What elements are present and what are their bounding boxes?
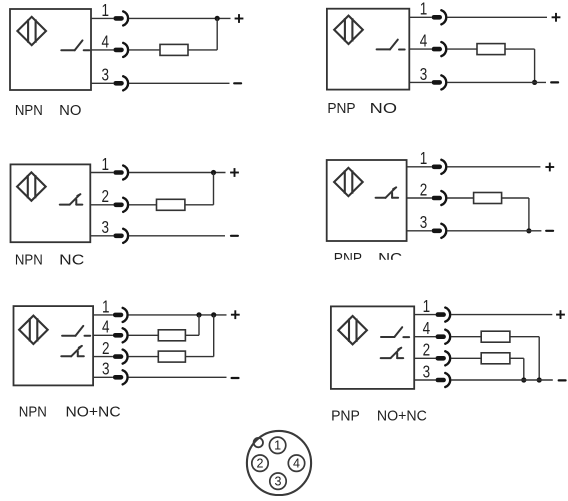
sensor body box (PNP NO) (327, 9, 409, 90)
wire riserB to - node PNP-NO+NC (523, 358, 525, 380)
NC contact switch (NPN NC) (60, 194, 83, 204)
quick-connect plug contact pin 3 (113, 370, 128, 384)
sensor body box (PNP NC) (327, 160, 407, 241)
wire pin2 stub PNP-NC (407, 197, 432, 199)
wire pin3 stub NPN-NO+NC (93, 376, 113, 378)
wire pin1 to + rail NPN-NC (129, 172, 226, 174)
wire pin3 to - terminal PNP-NO+NC (451, 379, 553, 381)
wire pin2 to load NPN-NC (129, 204, 157, 206)
wire riserA to + node NPN-NO+NC (198, 315, 200, 335)
proximity sensor diamond symbol (NPN NC) (17, 172, 46, 200)
svg-text:2: 2 (423, 340, 431, 360)
wire pin3 to - terminal PNP-NC (447, 230, 541, 232)
NC contact switch (PNP NC) (376, 187, 399, 197)
load resistor (NPN NO load) (160, 44, 188, 55)
svg-text:PNPNO+NC: PNPNO+NC (331, 409, 427, 425)
junction node PNP-NO+NC -node B (521, 377, 526, 382)
+ supply terminal (PNP NC) (545, 163, 554, 172)
quick-connect plug contact pin 1 (432, 160, 447, 174)
quick-connect plug contact pin 4 (432, 42, 447, 56)
wire riser to - node PNP-NO (534, 49, 536, 82)
proximity sensor diamond symbol (NPN NO) (17, 17, 46, 45)
svg-text:NPNNO+NC: NPNNO+NC (19, 404, 121, 420)
wire pin4 stub NPN-NO+NC (93, 334, 113, 336)
wire load to riser PNP-NC (502, 197, 529, 199)
quick-connect plug contact pin 3 (113, 76, 128, 90)
wire pin1 stub PNP-NC (407, 166, 432, 168)
svg-text:2: 2 (257, 457, 264, 471)
quick-connect plug contact pin 2 (432, 191, 447, 205)
sensor body box (NPN NO+NC) (14, 306, 94, 385)
wire load to riser NPN-NO (188, 49, 217, 51)
quick-connect plug contact pin 2 (113, 198, 128, 212)
+ supply terminal (NPN NO) (235, 14, 244, 23)
wire pin1 stub PNP-NO (409, 16, 431, 18)
quick-connect plug contact pin 3 (432, 75, 447, 89)
wire pin2 stub NPN-NC (90, 204, 113, 206)
quick-connect plug contact pin 4 (436, 330, 451, 344)
wire pin4 stub PNP-NO (409, 48, 431, 50)
load resistor (PNP NC load) (474, 193, 502, 204)
wire pin1 stub NPN-NO (91, 17, 113, 19)
wire pin3 stub PNP-NO+NC (414, 379, 435, 381)
quick-connect plug contact pin 2 (113, 350, 128, 364)
wire pin4 to load NPN-NO (129, 49, 160, 51)
svg-text:4: 4 (423, 318, 431, 338)
wire pin3 stub NPN-NO (91, 82, 113, 84)
- supply terminal (NPN NC) (231, 235, 238, 237)
svg-text:3: 3 (423, 361, 431, 381)
wire pin1 to + terminal PNP-NO (447, 16, 547, 18)
wire pin3 stub PNP-NC (407, 230, 432, 232)
- supply terminal (PNP NO+NC) (559, 379, 566, 381)
quick-connect plug contact pin 1 (113, 11, 128, 25)
NO contact switch (NPN NO) (61, 40, 89, 50)
connector outer shell circle (247, 431, 311, 495)
NO contact switch (NPN NO+NC) (62, 326, 90, 336)
svg-text:3: 3 (102, 65, 110, 85)
svg-text:4: 4 (293, 457, 300, 471)
connector keyway notch (254, 438, 263, 447)
proximity sensor diamond symbol (PNP NO+NC) (338, 316, 367, 344)
quick-connect plug contact pin 3 (436, 373, 451, 387)
svg-text:1: 1 (102, 154, 110, 174)
load resistor (PNP NO+NC load B) (481, 353, 510, 364)
svg-text:3: 3 (420, 212, 428, 232)
wire pin2 to load NPN-NO+NC (128, 356, 158, 358)
+ supply terminal (PNP NO) (552, 13, 561, 22)
connector pin 2 (252, 455, 268, 471)
connector pin 3 (270, 473, 286, 489)
svg-text:1: 1 (102, 296, 110, 316)
quick-connect plug contact pin 1 (113, 308, 128, 322)
wire pin3 stub PNP-NO (409, 81, 431, 83)
wire loadB to riser NPN-NO+NC (185, 356, 213, 358)
load resistor (NPN NO+NC load B) (158, 351, 185, 362)
NO contact switch (PNP NO+NC) (381, 327, 409, 337)
svg-text:2: 2 (102, 338, 110, 358)
wire pin1 to + terminal PNP-NC (447, 166, 540, 168)
wire riser to - node PNP-NC (528, 198, 530, 231)
wire pin4 stub PNP-NO+NC (414, 336, 435, 338)
NC contact switch (NPN NO+NC) (61, 346, 84, 356)
- supply terminal (PNP NC) (546, 230, 553, 232)
svg-text:3: 3 (102, 217, 110, 237)
wire pin2 stub PNP-NO+NC (414, 357, 435, 359)
proximity sensor diamond symbol (NPN NO+NC) (19, 316, 48, 344)
wire pin1 stub NPN-NC (90, 172, 113, 174)
quick-connect plug contact pin 3 (113, 229, 128, 243)
- supply terminal (NPN NO) (234, 82, 241, 84)
svg-text:3: 3 (275, 475, 282, 489)
svg-text:4: 4 (420, 31, 428, 51)
svg-text:1: 1 (420, 0, 428, 19)
NC contact switch (PNP NO+NC) (381, 348, 404, 358)
wire pin1 to + rail NPN-NO+NC (128, 314, 226, 316)
sensor body box (PNP NO+NC) (331, 306, 414, 389)
quick-connect plug contact pin 2 (436, 351, 451, 365)
sensor body box (NPN NC) (11, 164, 91, 242)
wire pin4 to load PNP-NO (447, 48, 477, 50)
wire pin4 to load PNP-NO+NC (451, 336, 481, 338)
quick-connect plug contact pin 3 (432, 224, 447, 238)
wire riser to + node NPN-NO (216, 18, 218, 50)
NO contact switch (PNP NO) (377, 40, 405, 50)
wire pin4 stub NPN-NO (91, 49, 113, 51)
white overlay clipping bottom of PNP NC caption (328, 260, 410, 268)
junction node NPN-NO+NC +node A (196, 312, 201, 317)
svg-text:4: 4 (102, 31, 110, 51)
proximity sensor diamond symbol (PNP NC) (334, 168, 363, 196)
wire pin1 stub PNP-NO+NC (414, 314, 435, 316)
svg-text:1: 1 (420, 148, 428, 168)
quick-connect plug contact pin 1 (432, 10, 447, 24)
load resistor (PNP NO load) (477, 44, 505, 55)
wire pin1 stub NPN-NO+NC (93, 314, 113, 316)
wire loadB to riser PNP-NO+NC (510, 357, 524, 359)
wire riser to + node NPN-NC (213, 173, 215, 205)
connector pin 1 (269, 437, 285, 453)
svg-text:1: 1 (102, 0, 110, 20)
svg-text:2: 2 (102, 186, 110, 206)
wire riserA to - node PNP-NO+NC (538, 337, 540, 380)
junction node PNP-NO -node (532, 80, 537, 85)
+ supply terminal (NPN NC) (230, 168, 239, 177)
wire load to riser PNP-NO (505, 48, 535, 50)
quick-connect plug contact pin 1 (113, 165, 128, 179)
wire pin3 to - terminal NPN-NO (129, 82, 230, 84)
wire riserB to + node NPN-NO+NC (213, 315, 215, 357)
junction node NPN-NO+NC +node B (211, 312, 216, 317)
quick-connect plug contact pin 1 (436, 308, 451, 322)
wire pin2 to load PNP-NC (447, 197, 474, 199)
quick-connect plug contact pin 4 (113, 43, 128, 57)
load resistor (PNP NO+NC load A) (481, 331, 510, 342)
junction node NPN-NC +node (211, 170, 216, 175)
wire pin3 to - terminal NPN-NC (129, 235, 225, 237)
svg-text:3: 3 (102, 359, 110, 379)
load resistor (NPN NC load) (157, 199, 185, 210)
wire pin3 stub NPN-NC (90, 235, 113, 237)
junction node NPN-NO +node (215, 16, 220, 21)
svg-text:3: 3 (420, 64, 428, 84)
connector pin 4 (288, 455, 304, 471)
junction node PNP-NO+NC -node A (537, 377, 542, 382)
junction node PNP-NC -node (526, 228, 531, 233)
+ supply terminal (PNP NO+NC) (556, 310, 565, 319)
proximity sensor diamond symbol (PNP NO) (334, 16, 363, 44)
svg-text:1: 1 (274, 439, 281, 453)
+ supply terminal (NPN NO+NC) (231, 310, 240, 319)
wire pin3 to - terminal PNP-NO (447, 81, 546, 83)
load resistor (NPN NO+NC load A) (158, 330, 185, 341)
wire pin2 to load PNP-NO+NC (451, 357, 481, 359)
wire load to riser NPN-NC (185, 204, 214, 206)
wire loadA to riser NPN-NO+NC (185, 334, 199, 336)
wire pin1 to + terminal PNP-NO+NC (451, 314, 552, 316)
sensor body box (NPN NO) (10, 9, 91, 90)
svg-text:4: 4 (102, 317, 110, 337)
- supply terminal (PNP NO) (551, 81, 558, 83)
wire pin4 to load NPN-NO+NC (128, 334, 158, 336)
svg-text:1: 1 (423, 296, 431, 316)
quick-connect plug contact pin 4 (113, 328, 128, 342)
wire pin2 stub NPN-NO+NC (93, 356, 113, 358)
wire loadA to riser PNP-NO+NC (510, 336, 539, 338)
svg-text:2: 2 (420, 179, 428, 199)
- supply terminal (NPN NO+NC) (232, 377, 239, 379)
wire pin1 to + rail NPN-NO (129, 17, 231, 19)
wire pin3 to - terminal NPN-NO+NC (128, 376, 226, 378)
